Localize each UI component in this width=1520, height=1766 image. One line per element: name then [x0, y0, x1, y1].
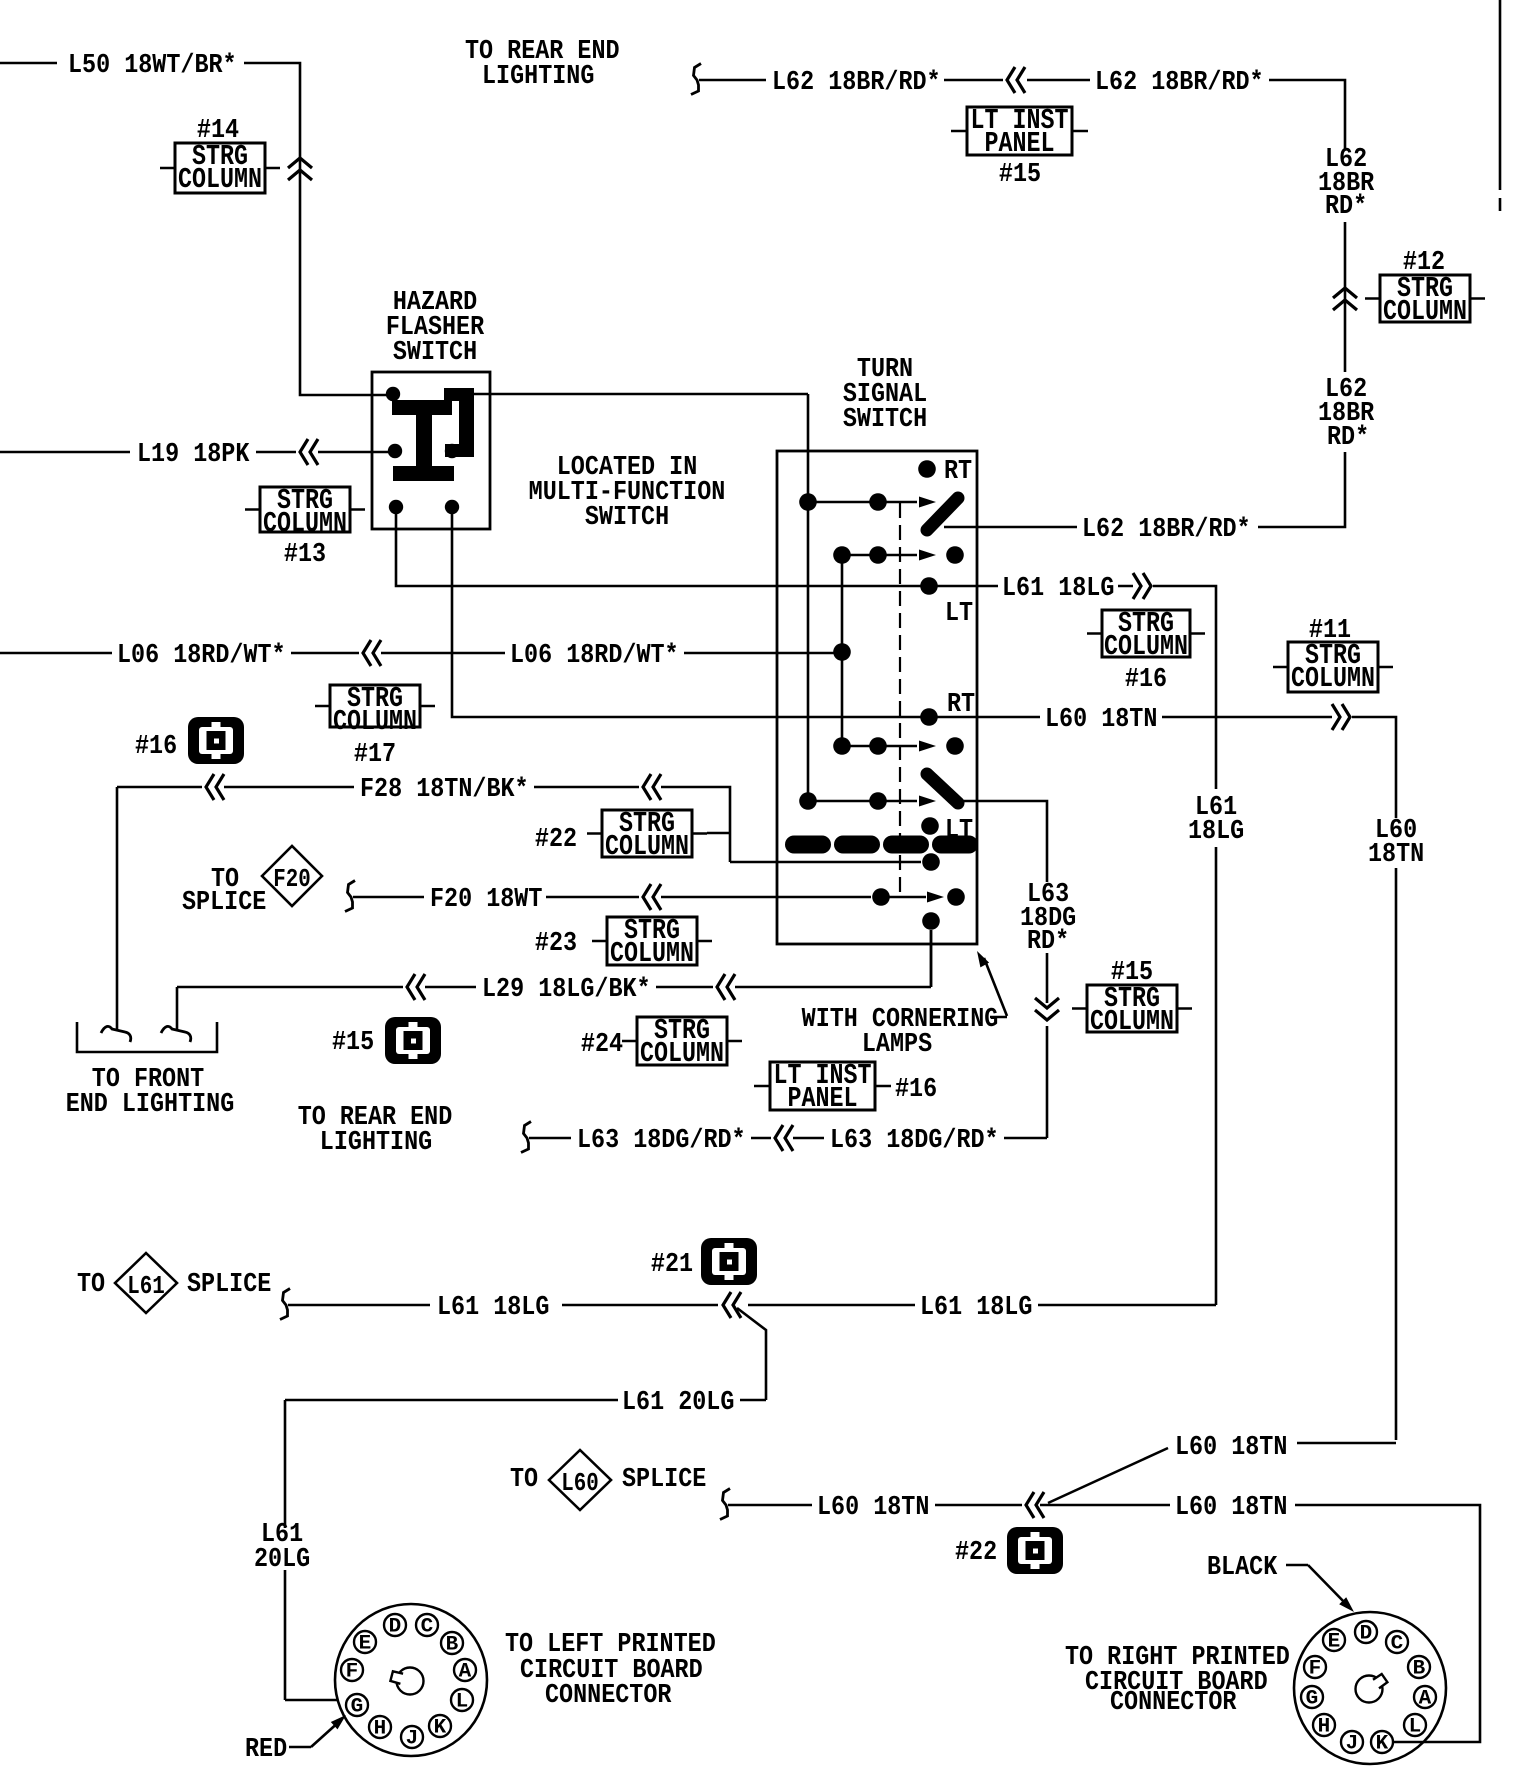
- svg-text:#23: #23: [535, 929, 577, 959]
- svg-text:G: G: [1306, 1688, 1319, 1711]
- svg-text:SWITCH: SWITCH: [585, 503, 669, 533]
- svg-text:TO: TO: [510, 1465, 538, 1495]
- svg-text:LAMPS: LAMPS: [862, 1030, 932, 1060]
- svg-text:L62 18BR/RD*: L62 18BR/RD*: [1095, 68, 1264, 98]
- svg-text:SWITCH: SWITCH: [393, 338, 477, 368]
- svg-text:A: A: [459, 1661, 472, 1684]
- svg-text:COLUMN: COLUMN: [1383, 295, 1467, 328]
- svg-text:C: C: [421, 1616, 434, 1639]
- svg-text:L61: L61: [127, 1271, 165, 1301]
- svg-text:COLUMN: COLUMN: [1104, 630, 1188, 663]
- svg-text:L29 18LG/BK*: L29 18LG/BK*: [482, 975, 651, 1005]
- svg-text:LT: LT: [945, 599, 973, 629]
- svg-text:COLUMN: COLUMN: [178, 163, 262, 196]
- svg-text:J: J: [1346, 1733, 1359, 1756]
- svg-text:L60 18TN: L60 18TN: [1045, 705, 1157, 735]
- svg-text:L: L: [1409, 1716, 1422, 1739]
- svg-text:18LG: 18LG: [1188, 817, 1244, 847]
- svg-text:F: F: [346, 1661, 359, 1684]
- svg-text:SPLICE: SPLICE: [622, 1465, 706, 1495]
- svg-text:L60 18TN: L60 18TN: [817, 1493, 929, 1523]
- svg-text:#15: #15: [999, 160, 1041, 190]
- svg-text:L63 18DG/RD*: L63 18DG/RD*: [577, 1126, 746, 1156]
- svg-text:F28 18TN/BK*: F28 18TN/BK*: [360, 775, 529, 805]
- svg-text:#17: #17: [354, 740, 396, 770]
- svg-text:L06 18RD/WT*: L06 18RD/WT*: [117, 641, 286, 671]
- svg-text:RT: RT: [944, 457, 972, 487]
- svg-text:L61 18LG: L61 18LG: [1002, 574, 1114, 604]
- svg-text:F20 18WT: F20 18WT: [430, 885, 542, 915]
- svg-text:20LG: 20LG: [254, 1545, 310, 1575]
- svg-text:18TN: 18TN: [1368, 840, 1424, 870]
- svg-text:G: G: [351, 1696, 364, 1719]
- svg-text:#16: #16: [135, 732, 177, 762]
- svg-text:J: J: [406, 1728, 419, 1751]
- svg-text:K: K: [434, 1717, 447, 1740]
- svg-text:COLUMN: COLUMN: [610, 937, 694, 970]
- svg-text:B: B: [446, 1634, 459, 1657]
- svg-text:#22: #22: [535, 825, 577, 855]
- svg-text:H: H: [374, 1718, 387, 1741]
- svg-text:SPLICE: SPLICE: [187, 1270, 271, 1300]
- svg-text:D: D: [1360, 1623, 1373, 1646]
- svg-text:E: E: [359, 1633, 372, 1656]
- svg-text:RD*: RD*: [1327, 423, 1369, 453]
- svg-text:F20: F20: [273, 864, 311, 894]
- svg-text:RD*: RD*: [1325, 192, 1367, 222]
- svg-text:END LIGHTING: END LIGHTING: [66, 1090, 235, 1120]
- svg-text:#16: #16: [895, 1075, 937, 1105]
- svg-text:TO: TO: [77, 1270, 105, 1300]
- svg-text:A: A: [1419, 1688, 1432, 1711]
- svg-text:LIGHTING: LIGHTING: [482, 62, 594, 92]
- svg-text:L50 18WT/BR*: L50 18WT/BR*: [68, 51, 237, 81]
- svg-text:H: H: [1318, 1716, 1331, 1739]
- svg-text:E: E: [1328, 1631, 1341, 1654]
- svg-text:#13: #13: [284, 540, 326, 570]
- svg-text:COLUMN: COLUMN: [263, 507, 347, 540]
- svg-text:L60 18TN: L60 18TN: [1175, 1493, 1287, 1523]
- svg-text:L60: L60: [561, 1468, 599, 1498]
- svg-text:PANEL: PANEL: [985, 127, 1055, 160]
- svg-text:L60 18TN: L60 18TN: [1175, 1433, 1287, 1463]
- svg-text:LIGHTING: LIGHTING: [320, 1128, 432, 1158]
- svg-text:L61 18LG: L61 18LG: [437, 1293, 549, 1323]
- svg-text:L: L: [456, 1691, 469, 1714]
- svg-text:COLUMN: COLUMN: [605, 830, 689, 863]
- svg-text:COLUMN: COLUMN: [1090, 1005, 1174, 1038]
- svg-text:L19 18PK: L19 18PK: [137, 440, 250, 470]
- svg-text:COLUMN: COLUMN: [333, 705, 417, 738]
- svg-text:L61 18LG: L61 18LG: [920, 1293, 1032, 1323]
- svg-text:F: F: [1309, 1658, 1322, 1681]
- svg-text:#24: #24: [581, 1030, 623, 1060]
- svg-text:SWITCH: SWITCH: [843, 405, 927, 435]
- svg-text:COLUMN: COLUMN: [640, 1037, 724, 1070]
- svg-text:RT: RT: [947, 690, 975, 720]
- svg-text:L06 18RD/WT*: L06 18RD/WT*: [510, 641, 679, 671]
- svg-text:BLACK: BLACK: [1207, 1553, 1278, 1583]
- svg-text:CONNECTOR: CONNECTOR: [1110, 1688, 1237, 1718]
- svg-text:L61 20LG: L61 20LG: [622, 1388, 734, 1418]
- svg-text:C: C: [1391, 1633, 1404, 1656]
- svg-text:CONNECTOR: CONNECTOR: [545, 1681, 672, 1711]
- svg-text:L62 18BR/RD*: L62 18BR/RD*: [772, 68, 941, 98]
- svg-text:RED: RED: [245, 1735, 287, 1765]
- svg-text:RD*: RD*: [1027, 927, 1069, 957]
- svg-text:COLUMN: COLUMN: [1291, 662, 1375, 695]
- svg-text:PANEL: PANEL: [788, 1082, 858, 1115]
- svg-text:L62 18BR/RD*: L62 18BR/RD*: [1082, 515, 1251, 545]
- svg-text:L63 18DG/RD*: L63 18DG/RD*: [830, 1126, 999, 1156]
- svg-text:D: D: [389, 1616, 402, 1639]
- svg-text:#22: #22: [955, 1538, 997, 1568]
- svg-text:B: B: [1413, 1658, 1426, 1681]
- svg-text:SPLICE: SPLICE: [182, 888, 266, 918]
- svg-text:K: K: [1376, 1733, 1389, 1756]
- svg-text:#15: #15: [332, 1028, 374, 1058]
- svg-text:#21: #21: [651, 1250, 693, 1280]
- svg-text:#16: #16: [1125, 665, 1167, 695]
